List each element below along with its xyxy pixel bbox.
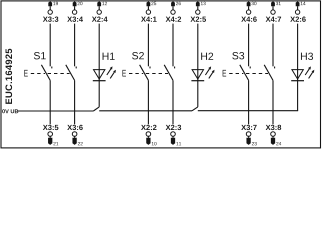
terminal X3:4 (pin 20) xyxy=(67,1,83,21)
terminal X3:8 (pin 24) xyxy=(266,125,282,146)
LED H3 xyxy=(291,66,314,80)
frame border xyxy=(1,1,321,148)
switch S3 label xyxy=(232,52,244,59)
terminal X3:6 (pin 22) xyxy=(67,125,83,146)
terminal X2:6 (pin 14) xyxy=(290,1,306,21)
LED H3 label xyxy=(301,53,313,60)
LED H2 label xyxy=(201,53,213,60)
switch S1 label xyxy=(34,52,46,59)
terminal X2:5 (pin 13) xyxy=(190,1,206,21)
terminal X2:3 (pin 11) xyxy=(166,125,182,146)
wire down to terminal X3:7 xyxy=(248,80,250,124)
wire from terminal X4:6 down xyxy=(248,24,250,67)
wire down to terminal X3:5 xyxy=(49,80,51,124)
wire LED H3 anode bar down xyxy=(297,81,299,111)
switch S1 actuator label E xyxy=(24,70,28,77)
wire down to terminal X3:6 xyxy=(74,80,76,124)
wire down to terminal X3:8 xyxy=(272,80,274,124)
terminal X3:3 (pin 19) xyxy=(43,1,59,21)
wire down to terminal X2:3 xyxy=(172,80,174,124)
LED H2 xyxy=(191,66,214,80)
wire from terminal X2:6 down xyxy=(297,24,299,81)
switch S2 contact 1 blade xyxy=(140,65,150,81)
net label 0V UB xyxy=(2,109,18,113)
switch S3 actuator label E xyxy=(223,70,227,77)
switch S3 contact 1 blade xyxy=(240,65,250,81)
switch S2 actuator label E xyxy=(122,70,126,77)
wire junction diagonal at H2 xyxy=(192,107,198,111)
terminal X4:2 (pin 26) xyxy=(166,1,181,21)
switch S2 label xyxy=(132,52,144,59)
device label EUC.164925 xyxy=(5,49,12,104)
switch S1 contact 1 blade xyxy=(41,65,51,81)
terminal X4:1 (pin 25) xyxy=(141,1,157,21)
switch S1 contact 2 blade xyxy=(66,65,76,81)
switch S2 contact 2 blade xyxy=(164,65,174,81)
wire from terminal X4:7 down xyxy=(272,24,274,67)
wire from terminal X4:2 down xyxy=(172,24,174,67)
LED H1 label xyxy=(103,53,115,60)
wire from terminal X3:4 down xyxy=(74,24,76,67)
wire from terminal X3:3 down xyxy=(49,24,51,67)
wire down to terminal X2:2 xyxy=(147,80,149,124)
wire LED H2 anode bar down xyxy=(197,81,199,107)
wire 0V UB bus segment 3 xyxy=(198,110,298,112)
terminal X3:5 (pin 21) xyxy=(43,125,59,146)
wire LED H1 anode bar down xyxy=(98,81,100,107)
switch S3 contact 2 blade xyxy=(264,65,274,81)
switch S2 actuator dashed link xyxy=(129,73,168,75)
wire 0V UB bus segment 2 xyxy=(99,110,192,112)
wire 0V UB bus segment 1 xyxy=(18,110,94,112)
LED H1 xyxy=(93,66,116,80)
switch S3 actuator dashed link xyxy=(229,73,268,75)
terminal X2:4 (pin 12) xyxy=(92,1,108,21)
terminal X3:7 (pin 23) xyxy=(241,125,256,146)
terminal X2:2 (pin 10) xyxy=(141,125,157,146)
wire junction diagonal at H1 xyxy=(93,107,99,111)
terminal X4:7 (pin 31) xyxy=(266,1,281,21)
wire from terminal X2:4 down xyxy=(98,24,100,81)
wire from terminal X4:1 down xyxy=(147,24,149,67)
wire from terminal X2:5 down xyxy=(197,24,199,81)
terminal X4:6 (pin 30) xyxy=(241,1,257,21)
switch S1 actuator dashed link xyxy=(31,73,70,75)
